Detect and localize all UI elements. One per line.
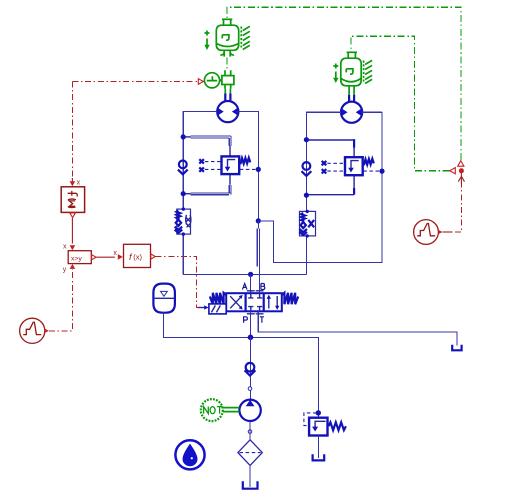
- wire: left rail to port A rail (bottom of left loop): [183, 273, 306, 275]
- port A stub: [250, 291, 252, 293]
- shaft coupler: green square with prongs: [222, 70, 234, 88]
- shaft dash between J1 and coupler: [226, 58, 228, 71]
- junction dot on right rail (to B): [256, 218, 261, 223]
- rotary load J1 (left): cylinder body with J, wall hatching, velocity arrow: [204, 19, 250, 56]
- port B stub: [259, 291, 261, 293]
- wire: M1 right port down right rail: [238, 112, 258, 221]
- check valve CV1 on left rail: [178, 161, 188, 175]
- port label P: [244, 317, 248, 323]
- wire: green command dash-dot line from junction up and left to load J1: [227, 7, 461, 160]
- svg-text:x: x: [77, 180, 81, 187]
- wire: f(x) to valve actuator (dash-dot): [156, 257, 199, 308]
- check valve CV3 on pump line: [245, 363, 256, 376]
- wire: ramp generator G1 to comparator (dash-dot): [49, 269, 73, 331]
- port T stub: [258, 311, 457, 345]
- hydraulic motor M1: [217, 101, 238, 122]
- port bars at valve top and bottom: [247, 291, 264, 314]
- signal arrowhead (open, right) at torque source input: [198, 79, 203, 85]
- hydraulic fluid properties icon (drop): [175, 440, 204, 469]
- svg-text:x>y: x>y: [71, 255, 82, 262]
- wire: pump to filter: [249, 421, 251, 440]
- shaft: motor to pump (double green line): [223, 408, 239, 412]
- integrator block B1: [61, 187, 84, 213]
- svg-text:y: y: [63, 267, 67, 274]
- wire: integrator to comparator: [71, 218, 73, 244]
- wire: M2 right port: [362, 111, 382, 113]
- signal arrowhead (open, up) at bottom of left green line: [458, 161, 464, 167]
- wire: bypass 2 upper branch: [306, 139, 354, 157]
- tank (T line, right side): [452, 345, 461, 351]
- input arrowhead (filled, down) into comparator: [70, 245, 76, 250]
- signal generator G1 (ramp): [20, 318, 49, 343]
- pump: [239, 400, 260, 421]
- relief-check block LRB1: [175, 207, 191, 235]
- left spring: [210, 293, 226, 304]
- wire: P junction to relief valve branch: [251, 337, 319, 417]
- wire: bypass 1 lower branch (double line): [183, 174, 231, 194]
- output arrowhead (open, right) from comparator: [92, 255, 96, 260]
- proportional actuator box (hatched): [209, 304, 226, 314]
- tank (main, below filter): [243, 481, 258, 488]
- svg-text:(x): (x): [133, 252, 142, 261]
- right box parallel arrows: [268, 298, 270, 309]
- pilot tap dot on right rail: [256, 167, 261, 172]
- wire: comparator to function block: [96, 256, 115, 258]
- pilot X mark: [322, 161, 327, 165]
- check valve CV2 on right-loop left rail: [302, 162, 312, 176]
- wire: M2 left port to right-loop left rail: [306, 112, 341, 236]
- accumulator: [153, 284, 175, 313]
- relief-check block LRB2: [299, 210, 315, 238]
- wire: right-loop left rail bottom riser: [305, 236, 307, 274]
- junction dot at P: [248, 335, 254, 341]
- pilot X mark: [199, 159, 204, 163]
- junction dot: [181, 134, 186, 139]
- wire: P junction down to pump: [250, 337, 252, 400]
- actuator input arrow: [198, 307, 206, 309]
- port bubble above pump: [248, 387, 252, 391]
- tank (relief valve drain): [313, 454, 325, 460]
- output arrowhead (open, down) from integrator: [70, 213, 76, 218]
- comparator block B2 (x>y): [68, 251, 91, 264]
- port label B: [261, 284, 265, 290]
- pilot X mark: [322, 169, 327, 173]
- pilot dashed line from X to valve BV2: [327, 162, 345, 164]
- signal generator G2 (ramp, right): [414, 220, 443, 245]
- relief valve RV: [304, 410, 346, 435]
- wire: G2 to junction (right, then up): [443, 231, 453, 233]
- pilot dashed line BV1 to right rail: [240, 168, 257, 170]
- flow control valve BV2: square with down arrow, spring right: [345, 157, 374, 175]
- input arrowhead (filled, right) into f(x): [118, 254, 123, 260]
- port bubble below pump: [248, 430, 252, 434]
- left box crossed arrows: [230, 296, 241, 308]
- wire: junction to right loop right rail (B side link): [258, 112, 382, 262]
- pilot dashed line from X to valve BV2: [327, 170, 345, 172]
- function block B3 f(x): [124, 244, 151, 267]
- signal arrowhead (open, left) at right end of J2 green line: [450, 168, 456, 174]
- port P stub: [250, 311, 252, 337]
- shaft: J2 to motor M2 (green then blue double line): [349, 86, 354, 95]
- svg-text:x: x: [113, 250, 117, 257]
- filter: diamond with dashed element: [238, 440, 262, 466]
- input arrowhead (filled, up) into comparator bottom: [70, 264, 76, 269]
- output arrowhead (open, right) from f(x): [151, 254, 155, 259]
- wire: green command dash-dot line from junction left-arrow up to load J2: [351, 36, 450, 171]
- input arrowhead (filled, down) into integrator: [71, 178, 73, 184]
- pilot dashed line BV2 to right rail: [363, 170, 380, 172]
- red control: wire sensor to integrator block (dash-dot down): [71, 82, 73, 179]
- wire: port A stub: [250, 274, 252, 292]
- torque source T1: green circle with tee, red input arrow: [204, 73, 222, 88]
- red command wire into torque source: [72, 81, 197, 83]
- junction dot: [304, 137, 309, 142]
- port label T: [260, 317, 264, 323]
- shaft: coupler to motor M1 (green then blue double line): [225, 89, 230, 94]
- port label A: [242, 284, 247, 290]
- rotary load J2 (right): cylinder body with J, wall hatching, velocity arrow: [333, 52, 372, 86]
- right spring: [282, 293, 298, 304]
- wire: B rail double-line segment down to valve port B: [257, 221, 259, 293]
- wire: relief valve to its tank: [317, 436, 319, 459]
- wire: accumulator stem to P junction: [164, 313, 251, 338]
- junction dot at port A: [248, 272, 253, 277]
- wire: bypass 2 lower branch: [306, 175, 354, 194]
- junction dot: [181, 191, 186, 196]
- centre box closed-port tees: [248, 293, 253, 298]
- flow control valve BV1: square with down arrow, spring right: [222, 156, 251, 174]
- hydraulic motor M2: [341, 102, 362, 123]
- wire: filter to tank: [249, 465, 251, 487]
- pilot tap dot on right rail: [379, 169, 384, 174]
- valve body boxes: [226, 293, 282, 311]
- wire: bypass 1 upper branch (double line): [183, 136, 231, 156]
- electric motor (NOT): scalloped green circle: [201, 399, 223, 421]
- pilot dashed line from X to valve BV1: [205, 168, 221, 170]
- arrowhead (up) on riser: [458, 176, 464, 181]
- directional valve DV 4/3 proportional: [198, 284, 457, 346]
- svg-text:x: x: [63, 244, 67, 251]
- signal junction dot: [459, 168, 464, 173]
- pilot dashed line from X to valve BV1: [205, 161, 221, 163]
- wire: M1 left port to left rail: [183, 112, 217, 275]
- pilot X mark: [199, 167, 204, 171]
- junction dot: [304, 193, 309, 198]
